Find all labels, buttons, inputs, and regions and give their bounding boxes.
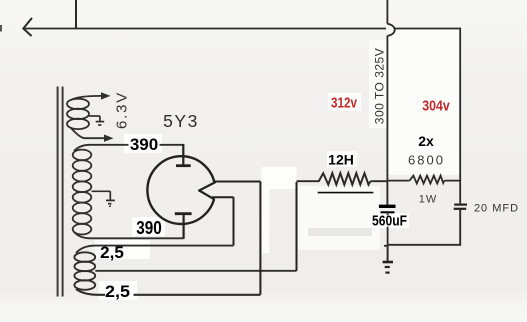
tube cathode chevron — [198, 180, 219, 202]
svg-text:5Y3: 5Y3 — [163, 111, 199, 131]
tube bottom plate — [175, 214, 192, 239]
ground main — [383, 262, 393, 273]
wire: choke to node B — [371, 180, 388, 182]
svg-text:2,5: 2,5 — [100, 243, 124, 262]
6.3V winding center tap with small ground — [89, 116, 104, 125]
svg-text:304v: 304v — [422, 99, 450, 115]
HV winding center tap with small ground — [92, 191, 115, 206]
arrow head left on top rail — [23, 19, 31, 36]
svg-text:390: 390 — [136, 218, 162, 238]
wire: node B down to C1 top plate — [386, 181, 388, 206]
wire: 2.5V winding middle lead — [95, 270, 296, 272]
wire: top rail horizontal — [23, 28, 460, 30]
wire: C2 bottom lead down and left to node C — [388, 210, 461, 245]
underline artifact below choke — [318, 192, 374, 194]
svg-text:2,5: 2,5 — [105, 282, 130, 301]
wire: B+ lead to choke — [297, 180, 320, 182]
svg-text:300 TO 325V: 300 TO 325V — [373, 48, 387, 124]
svg-text:390: 390 — [130, 135, 158, 154]
wire: node B to resistor — [387, 180, 409, 182]
transformer winding HV 390-0-390 (8 loops) — [73, 150, 92, 235]
capacitor C1 560uF — [379, 206, 396, 212]
eraser patches over wires at bold labels — [105, 139, 160, 300]
wire: left edge stub — [0, 25, 2, 32]
transformer winding 6.3V (3 loops) — [67, 99, 89, 129]
resistor R1 6800 zigzag — [410, 176, 445, 184]
wire: vertical from top with crossover hop at rail — [387, 0, 394, 181]
wire: vertical down to 2.5V bottom lead — [259, 182, 261, 295]
tube top plate — [176, 144, 191, 166]
transformer winding 2.5V (4 loops) — [74, 252, 95, 290]
choke L1 12H zigzag — [319, 173, 371, 184]
capacitor C2 20MFD plates — [454, 205, 467, 209]
wire: B+ vertical from 2.5V middle lead up — [296, 182, 298, 271]
wire: node C to ground — [387, 245, 389, 261]
wire: top feeder vertical — [75, 0, 77, 29]
wire: HV top lead to tube top plate — [74, 145, 183, 151]
wire: right branch vertical from rail down to 20MFD cap — [459, 28, 461, 204]
wire: 6.3V top lead with arrow — [71, 96, 101, 100]
svg-text:12H: 12H — [328, 152, 354, 168]
wire: C1 bottom lead — [387, 214, 389, 246]
svg-text:20 MFD: 20 MFD — [474, 203, 519, 215]
tube 5Y3 envelope — [147, 156, 215, 224]
wire: 2.5V winding bottom lead — [76, 289, 260, 295]
svg-text:560uF: 560uF — [372, 214, 407, 230]
gray smudge artifact — [308, 228, 372, 236]
wire: 2.5V winding top lead — [76, 246, 234, 253]
wire: cathode upper lead to junction — [214, 181, 261, 183]
transformer T1 core — [58, 87, 63, 297]
wire: vertical down to 2.5V top lead — [233, 197, 235, 245]
wire: resistor to right branch — [444, 180, 460, 182]
svg-text:1W: 1W — [419, 194, 438, 206]
wire: 6.3V bottom lead with arrow — [71, 128, 104, 138]
svg-text:6.3V: 6.3V — [114, 91, 131, 129]
svg-text:312v: 312v — [331, 96, 357, 112]
wire: cathode lower lead — [212, 196, 234, 198]
wire: HV bottom lead to tube bottom plate — [74, 232, 184, 238]
whiteout patches — [95, 30, 459, 300]
svg-text:6800: 6800 — [408, 153, 445, 168]
wire: node C stub — [384, 245, 388, 247]
svg-text:2x: 2x — [418, 133, 434, 149]
